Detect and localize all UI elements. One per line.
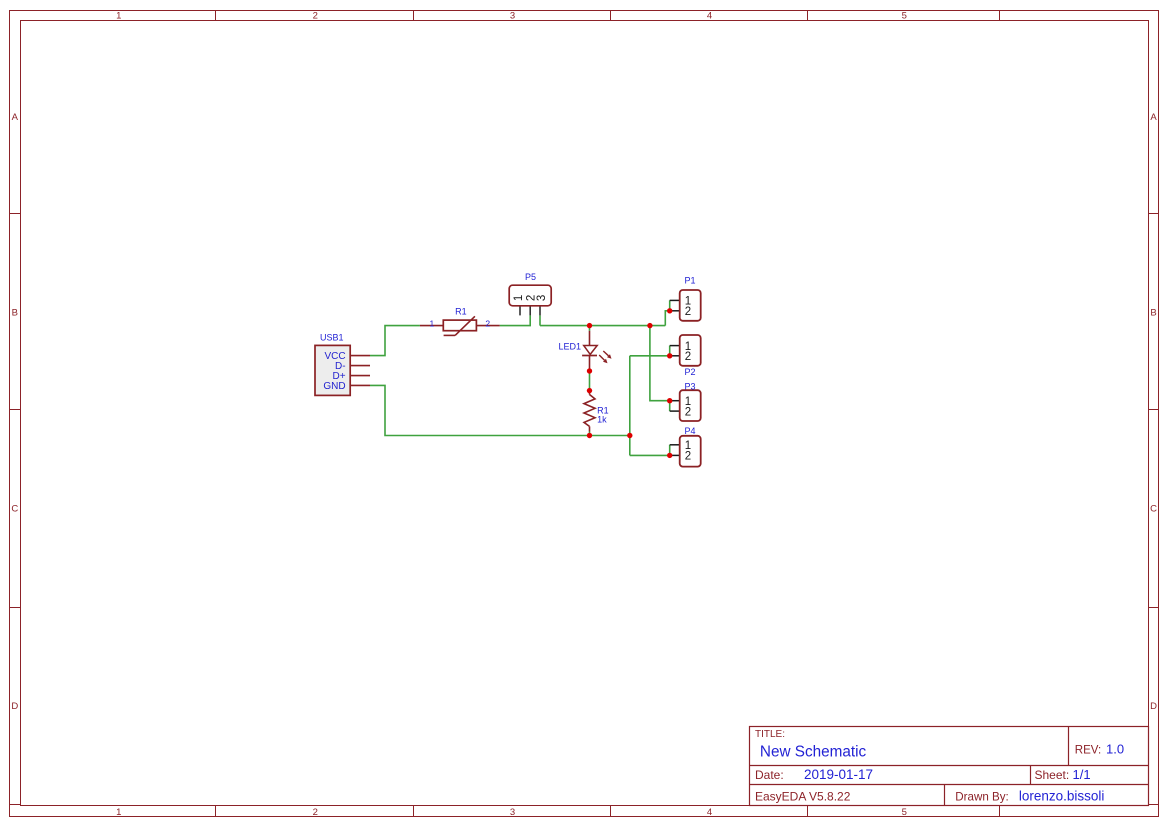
connector P3 <box>670 390 701 421</box>
svg-text:R1: R1 <box>455 307 467 317</box>
connector P2 <box>670 335 701 366</box>
wire riser to P1 <box>665 311 669 326</box>
connector P1 <box>670 290 701 321</box>
svg-text:1/1: 1/1 <box>1073 767 1091 782</box>
column numbers top <box>116 11 907 22</box>
junction dot P1 pins <box>667 308 672 313</box>
svg-text:1: 1 <box>513 295 525 301</box>
column numbers bottom <box>116 807 907 818</box>
svg-text:P1: P1 <box>685 276 696 286</box>
wire to P4 <box>630 454 670 456</box>
svg-text:Sheet:: Sheet: <box>1035 768 1070 782</box>
row tick marks right <box>1149 214 1159 805</box>
wire vertical P2-P4 bus <box>629 356 631 456</box>
svg-text:TITLE:: TITLE: <box>755 729 785 740</box>
svg-text:LED1: LED1 <box>559 342 582 352</box>
column tick marks bottom <box>216 806 1000 817</box>
junction dot bottom wire bus <box>627 433 632 438</box>
svg-text:1k: 1k <box>597 415 607 425</box>
wire P1 pin bracket <box>669 300 671 310</box>
svg-text:1.0: 1.0 <box>1106 742 1124 757</box>
svg-text:REV:: REV: <box>1075 745 1101 757</box>
connector USB1 <box>315 345 370 395</box>
svg-text:4: 4 <box>707 11 712 22</box>
svg-text:P5: P5 <box>525 272 536 282</box>
wire P3 pin bracket <box>669 401 671 411</box>
junction dot bottom wire resistor <box>587 433 592 438</box>
svg-text:2: 2 <box>313 807 318 818</box>
svg-text:2: 2 <box>685 306 691 318</box>
wire VCC to R1 <box>370 326 420 356</box>
wire P4 pin bracket <box>669 445 671 456</box>
wire LED anode stub <box>589 326 591 331</box>
junction dot P4 pins <box>667 453 672 458</box>
svg-text:1: 1 <box>430 318 435 328</box>
junction dot resistor top <box>587 388 592 393</box>
connector P4 <box>670 436 701 467</box>
svg-text:4: 4 <box>707 807 712 818</box>
wire resistor bottom stub <box>589 432 591 436</box>
svg-text:D: D <box>11 701 18 712</box>
svg-text:2: 2 <box>313 11 318 22</box>
column tick marks top <box>216 11 1000 21</box>
junction dot top wire LED branch <box>587 323 592 328</box>
wire LED cathode to resistor <box>589 371 591 391</box>
svg-text:lorenzo.bissoli: lorenzo.bissoli <box>1019 789 1105 804</box>
row letters right <box>1150 112 1157 712</box>
svg-text:2: 2 <box>685 450 691 462</box>
svg-text:2019-01-17: 2019-01-17 <box>804 767 873 782</box>
svg-text:USB1: USB1 <box>320 332 344 342</box>
svg-text:Drawn By:: Drawn By: <box>955 791 1008 804</box>
svg-text:P2: P2 <box>685 367 696 377</box>
svg-text:2: 2 <box>685 351 691 363</box>
svg-text:Date:: Date: <box>755 768 784 782</box>
row letters left <box>11 112 18 712</box>
wire R1 to P5 pin2 <box>500 315 531 325</box>
svg-text:B: B <box>12 307 18 318</box>
junction dot LED cathode <box>587 368 592 373</box>
title block row divider 2 <box>750 784 1149 786</box>
title block DrawnBy cell divider <box>944 785 946 806</box>
LED LED1 <box>582 331 611 371</box>
junction dot top wire P3 branch <box>647 323 652 328</box>
svg-text:2: 2 <box>685 406 691 418</box>
svg-text:P4: P4 <box>685 426 696 436</box>
svg-text:3: 3 <box>510 11 515 22</box>
row tick marks left <box>10 214 21 805</box>
svg-text:C: C <box>1150 504 1157 515</box>
wire GND down and bottom horizontal <box>370 385 630 435</box>
svg-text:5: 5 <box>902 11 907 22</box>
svg-text:2: 2 <box>485 318 490 328</box>
svg-text:1: 1 <box>116 11 121 22</box>
wire P2 pin bracket <box>669 346 671 356</box>
svg-text:A: A <box>12 112 19 123</box>
svg-text:New Schematic: New Schematic <box>760 743 867 760</box>
junction dot P3 pins <box>667 398 672 403</box>
svg-text:A: A <box>1150 112 1157 123</box>
svg-text:EasyEDA V5.8.22: EasyEDA V5.8.22 <box>755 790 851 804</box>
title block outline <box>750 727 1149 806</box>
svg-text:P3: P3 <box>685 382 696 392</box>
svg-text:B: B <box>1150 307 1156 318</box>
connector P5 <box>509 285 551 315</box>
title block REV cell divider <box>1068 727 1070 766</box>
svg-text:3: 3 <box>510 807 515 818</box>
svg-text:3: 3 <box>536 295 548 301</box>
fuse R1 <box>420 316 500 335</box>
svg-text:5: 5 <box>902 807 907 818</box>
title block row divider 1 <box>750 765 1149 767</box>
resistor R1 1k <box>584 391 595 432</box>
wire to P3 from top wire <box>650 326 670 401</box>
svg-text:C: C <box>11 504 18 515</box>
wire to P2 <box>630 355 670 357</box>
junction dot P2 pins <box>667 353 672 358</box>
wire top horizontal P5 to P1 corner <box>540 325 665 327</box>
svg-text:D: D <box>1150 701 1157 712</box>
wire P5 pin3 drop <box>539 315 541 325</box>
svg-text:GND: GND <box>323 381 345 392</box>
title block Sheet cell divider <box>1030 766 1032 785</box>
svg-text:1: 1 <box>116 807 121 818</box>
